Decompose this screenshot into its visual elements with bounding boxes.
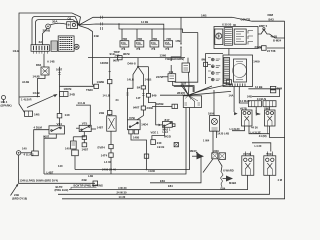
relay V75	[79, 125, 91, 131]
svg-text:14D4: 14D4	[141, 122, 148, 126]
svg-text:V34: V34	[57, 122, 63, 126]
switch row1 B (V60)	[265, 110, 276, 126]
svg-text:24: 24	[116, 98, 119, 102]
svg-text:B-M24: B-M24	[273, 38, 282, 42]
wire bottom-left 14LB-R	[19, 96, 40, 99]
inline connector 24B	[108, 111, 112, 115]
wire fuse drops from rail	[122, 29, 152, 41]
wire 14B down	[175, 33, 198, 83]
svg-text:4 LLA 2: 4 LLA 2	[24, 152, 34, 156]
label bracket boxtip	[71, 187, 97, 189]
svg-text:14T4: 14T4	[101, 153, 108, 157]
wire trunk 1007	[59, 67, 61, 114]
connector on DIM loop	[262, 46, 267, 51]
svg-text:74B: 74B	[138, 38, 143, 41]
svg-text:A14B: A14B	[22, 80, 29, 84]
svg-text:1007B: 1007B	[64, 87, 72, 91]
wire fan line L3 down	[79, 26, 93, 58]
wire fan line L2	[79, 24, 164, 41]
connector with X	[174, 143, 178, 147]
svg-text:E84: E84	[160, 179, 165, 183]
svg-text:24D: 24D	[70, 93, 76, 97]
wire x148 drop	[148, 67, 150, 94]
svg-text:D4H-8: D4H-8	[128, 62, 137, 66]
svg-text:1480: 1480	[133, 135, 140, 139]
svg-text:74B(BLK/GRN): 74B(BLK/GRN)	[165, 57, 184, 61]
wire trunk H at y57.6	[88, 57, 185, 59]
diode module 74B b	[182, 63, 190, 72]
svg-text:P 1: P 1	[137, 47, 141, 51]
wire from 74B module down	[187, 72, 190, 95]
component 1904 lamp unit	[213, 90, 215, 116]
svg-text:30AB: 30AB	[43, 28, 52, 32]
svg-text:14B: 14B	[201, 14, 207, 18]
splice ticks trunks	[109, 72, 145, 96]
svg-text:14 BLN: 14 BLN	[257, 97, 266, 101]
switch V34	[49, 126, 65, 134]
wire branch to fuse rail	[119, 24, 198, 33]
connector 140B right	[263, 101, 276, 107]
svg-text:1M47: 1M47	[190, 149, 197, 153]
svg-text:14B7: 14B7	[82, 148, 89, 152]
connector 24T0	[172, 104, 178, 108]
svg-text:4 W 30: 4 W 30	[118, 186, 127, 190]
svg-text:14B: 14B	[34, 113, 40, 117]
svg-text:B4: B4	[137, 85, 141, 89]
svg-text:L4 30: L4 30	[104, 160, 112, 164]
diode module 74B a	[168, 74, 176, 82]
switch 847	[162, 122, 172, 128]
inline connector 14MB	[108, 80, 112, 84]
svg-text:15A: 15A	[136, 41, 141, 45]
svg-text:15A: 15A	[121, 41, 126, 45]
svg-text:DIM: DIM	[277, 87, 283, 91]
svg-text:967B: 967B	[123, 52, 130, 56]
component small above	[71, 141, 77, 149]
svg-text:24 T38: 24 T38	[267, 49, 276, 53]
wire trunk x109.7 down	[109, 58, 111, 80]
ground lug circle	[16, 151, 20, 155]
svg-text:A 14B: A 14B	[47, 60, 55, 64]
svg-text:8M: 8M	[202, 58, 207, 62]
wire drops from assembly	[233, 87, 235, 113]
wire 247B stub	[162, 76, 168, 78]
wiring under row1	[232, 126, 245, 131]
connector 14B7	[82, 143, 87, 147]
connector right of 847	[172, 124, 175, 127]
feed arrow into 847	[159, 124, 162, 127]
svg-text:140: 140	[58, 164, 63, 168]
svg-text:COVER: COVER	[241, 17, 251, 21]
svg-text:(SPARK): (SPARK)	[1, 103, 12, 107]
connector at end	[93, 181, 98, 186]
svg-text:247B: 247B	[156, 75, 163, 79]
wire E84 run	[150, 156, 201, 183]
svg-text:V60: V60	[264, 106, 269, 110]
wire from left into junction	[160, 94, 188, 96]
svg-text:1M4B: 1M4B	[156, 102, 163, 106]
connector BAB 2-pin	[25, 111, 33, 116]
branch to TN40	[60, 85, 95, 87]
svg-text:BMT 5: BMT 5	[259, 24, 268, 28]
inline connector on block edge	[204, 62, 208, 66]
inline connector 140	[57, 114, 62, 118]
fuse row: fuse 1	[120, 41, 129, 47]
svg-text:O2: O2	[68, 17, 72, 21]
svg-text:(BRD DY18): (BRD DY18)	[12, 196, 27, 200]
connector 140B left	[248, 101, 261, 107]
svg-text:L4B7: L4B7	[47, 170, 54, 174]
svg-text:15A: 15A	[165, 41, 170, 45]
svg-text:1309: 1309	[213, 149, 220, 153]
inline connector 849	[146, 94, 150, 98]
wire 44M corner into V004	[252, 143, 271, 152]
svg-text:B43: B43	[269, 18, 275, 22]
contact sub-box	[234, 29, 246, 44]
svg-text:24B: 24B	[115, 53, 120, 57]
pin strip hatched	[224, 28, 232, 46]
switch V7B pins	[129, 130, 133, 134]
wire fuse stubs	[124, 47, 168, 50]
svg-text:44 36: 44 36	[251, 125, 258, 129]
svg-text:L4 30: L4 30	[255, 144, 262, 148]
svg-text:24MB: 24MB	[255, 45, 262, 49]
svg-text:BOXTIP (P4B) QWTING: BOXTIP (P4B) QWTING	[74, 184, 104, 188]
svg-text:9678: 9678	[113, 59, 119, 63]
svg-text:14UB: 14UB	[33, 75, 40, 79]
wire from 14.8 run	[181, 84, 188, 95]
svg-text:847: 847	[165, 118, 170, 122]
svg-text:L94 B: L94 B	[157, 145, 164, 149]
svg-text:4 E30: 4 E30	[148, 169, 156, 173]
svg-text:946T: 946T	[133, 106, 140, 110]
ignition switch assembly outer box	[214, 27, 258, 49]
component DB4 left column	[41, 67, 49, 75]
wire ground drop	[19, 155, 95, 183]
wire H at junction	[138, 66, 149, 68]
svg-text:849: 849	[152, 94, 157, 98]
wire x75 from connector 140b	[74, 156, 76, 170]
svg-text:131 4: 131 4	[1, 100, 8, 104]
ground terminal block	[32, 151, 39, 156]
svg-text:14T: 14T	[136, 96, 141, 100]
wire 24T0 branch	[152, 105, 172, 107]
svg-text:1487: 1487	[97, 125, 104, 129]
svg-text:V0735: V0735	[243, 152, 252, 156]
svg-text:P 1: P 1	[122, 47, 126, 51]
svg-text:14J0 L4B: 14J0 L4B	[217, 132, 229, 136]
knife switch arc top right	[258, 30, 285, 38]
wire 17B vertical	[180, 17, 182, 44]
fuse/relay box: striped module	[51, 41, 57, 51]
wire V34 bottom drop	[44, 134, 56, 174]
svg-text:140: 140	[22, 147, 27, 151]
svg-text:P 1: P 1	[166, 47, 170, 51]
svg-text:13060: 13060	[100, 61, 109, 65]
ignition position table box	[223, 55, 253, 87]
svg-text:284(F): 284(F)	[177, 91, 185, 95]
svg-text:VGE 1: VGE 1	[151, 131, 159, 135]
switch row1 A (V07B)	[242, 110, 253, 126]
pointer triangle lower right cluster	[226, 176, 233, 182]
feed arrows row1	[234, 112, 238, 115]
svg-text:E84: E84	[168, 184, 173, 188]
motor symbol M	[74, 44, 79, 49]
connector column block	[206, 54, 223, 85]
distribution box	[183, 96, 201, 108]
svg-text:EVR4: EVR4	[98, 146, 106, 150]
wire fan line L1 to far right	[79, 17, 285, 25]
wire to connector BAB	[19, 97, 25, 113]
pointer arrow to 24D connector	[27, 95, 56, 108]
battery B+ terminal	[46, 24, 51, 29]
svg-text:V004: V004	[266, 152, 273, 156]
svg-text:M4B4: M4B4	[229, 181, 237, 185]
svg-text:E84: E84	[221, 187, 226, 191]
junction node D4H-8	[137, 66, 139, 68]
squiggle wire	[221, 172, 224, 187]
svg-text:24B: 24B	[94, 34, 99, 38]
svg-text:24B: 24B	[99, 111, 104, 115]
fuse 2	[135, 41, 144, 47]
svg-text:4L0B: 4L0B	[271, 34, 278, 38]
svg-text:74B: 74B	[153, 38, 158, 41]
svg-text:17B: 17B	[175, 39, 180, 43]
relay V75 pins	[83, 132, 85, 136]
svg-text:74B: 74B	[123, 38, 128, 41]
wire 14LB feed to relay V75	[76, 105, 90, 125]
key cylinder sub-box	[215, 29, 223, 45]
svg-text:X 30 50: X 30 50	[222, 23, 232, 27]
wire TN40 branch	[93, 58, 95, 87]
svg-text:V7B: V7B	[129, 116, 136, 120]
pointer triangle left	[197, 153, 205, 159]
wire 847 bottom	[152, 127, 165, 139]
splice ticks on fan lines	[101, 16, 103, 30]
svg-text:14LB: 14LB	[145, 78, 152, 82]
stacked connector DIM	[270, 86, 275, 89]
connector small left of table	[226, 80, 231, 85]
wire DIM loop bottom	[267, 47, 285, 49]
svg-text:4 DLM: 4 DLM	[34, 125, 43, 129]
svg-text:1 4LB-R: 1 4LB-R	[21, 97, 32, 101]
pointer arrow bottom-left	[11, 185, 18, 196]
svg-text:4 M: 4 M	[278, 178, 283, 182]
connector 140b	[72, 150, 79, 156]
svg-text:24B: 24B	[82, 178, 87, 182]
svg-text:240: 240	[157, 141, 162, 145]
wire 14.8 double run to junction	[173, 81, 194, 92]
wire inner loop 1	[32, 17, 79, 45]
wire assembly link	[228, 49, 230, 56]
svg-text:14 2B: 14 2B	[141, 20, 148, 24]
svg-text:1360: 1360	[160, 54, 167, 58]
svg-text:14A: 14A	[229, 94, 234, 98]
wire 1904 drops	[212, 131, 214, 153]
svg-text:44 (M): 44 (M)	[259, 134, 267, 138]
wire long bus y169.5	[75, 108, 190, 170]
switch row2 A (V0735)	[242, 156, 254, 176]
svg-text:30: 30	[233, 23, 236, 27]
svg-text:TN40: TN40	[86, 88, 93, 92]
svg-text:(PRG ELN): (PRG ELN)	[55, 188, 69, 192]
svg-text:15A: 15A	[151, 41, 156, 45]
svg-text:74B: 74B	[166, 38, 171, 41]
svg-text:14LB: 14LB	[127, 78, 134, 82]
svg-text:140: 140	[65, 147, 70, 151]
wire 74B label run	[170, 65, 172, 74]
svg-text:L4 3L3E: L4 3L3E	[251, 130, 262, 134]
svg-text:24B: 24B	[14, 193, 19, 197]
svg-text:1007: 1007	[56, 68, 63, 72]
svg-text:24B: 24B	[247, 94, 252, 98]
svg-text:14 LB: 14 LB	[78, 101, 86, 105]
svg-text:14.8: 14.8	[181, 82, 187, 86]
wire trunk 14LB right	[138, 67, 143, 86]
svg-text:14LB: 14LB	[13, 49, 20, 53]
left margin terminal icon	[2, 96, 6, 100]
connector box with key symbol	[67, 22, 78, 29]
wire right border loop	[62, 21, 285, 199]
svg-text:L4B: L4B	[88, 174, 93, 178]
svg-text:14MB: 14MB	[97, 80, 104, 84]
inline connector 946T	[141, 106, 145, 110]
switch row2 B (V004)	[264, 156, 276, 176]
svg-text:P 1: P 1	[152, 47, 156, 51]
wire long bus y174	[44, 108, 186, 175]
switch V7B	[127, 120, 140, 130]
svg-text:V07B: V07B	[240, 106, 247, 110]
wire 14Bk loop right	[248, 89, 279, 97]
flasher module center	[107, 116, 116, 131]
inline connector 919	[118, 56, 123, 60]
wire trunk 14LB left	[128, 67, 139, 120]
svg-text:1 W4: 1 W4	[203, 139, 210, 143]
wire from connector strip down-left	[43, 54, 45, 67]
svg-text:V75: V75	[82, 122, 88, 126]
svg-text:WGD: WGD	[164, 134, 171, 138]
inline connector 240	[151, 140, 156, 145]
wire inner loop 2	[36, 20, 80, 45]
junction dots 1M47	[196, 152, 198, 154]
wire diagonals from cluster	[203, 159, 213, 173]
svg-text:DIM: DIM	[268, 13, 274, 17]
svg-text:14 Bk: 14 Bk	[255, 85, 263, 89]
svg-text:14UB: 14UB	[33, 91, 40, 95]
fuse 3	[150, 41, 159, 47]
wire V75 left stub	[76, 127, 79, 129]
wire row2 B bottom run	[58, 175, 270, 194]
fuse/relay box: fuse grid	[58, 36, 74, 51]
svg-text:L4 3L30: L4 3L30	[230, 127, 241, 131]
connector 24D 2-pin	[60, 92, 69, 97]
bracket contacts	[248, 31, 253, 45]
svg-text:14 RHA: 14 RHA	[240, 99, 250, 103]
wire battery to ignition feed box	[50, 23, 67, 25]
svg-text:X WARD: X WARD	[223, 169, 234, 173]
assembly lower pin row	[230, 84, 245, 87]
cluster connectors bottom-middle	[212, 153, 218, 159]
svg-text:1409: 1409	[253, 59, 260, 63]
inline connector B4	[141, 86, 145, 89]
wire battery to fusebox	[43, 28, 48, 44]
fuse 4	[164, 41, 173, 47]
svg-text:1346 (LPAD) 26/MA (BRD DY4): 1346 (LPAD) 26/MA (BRD DY4)	[20, 179, 59, 183]
inline connector on x146.5	[144, 154, 148, 158]
star junction node	[187, 94, 189, 96]
svg-text:9007: 9007	[43, 135, 50, 139]
svg-text:D84: D84	[36, 63, 42, 67]
svg-text:149: 149	[169, 70, 174, 74]
svg-text:1904: 1904	[208, 112, 215, 116]
svg-text:TRIP: TRIP	[114, 50, 120, 54]
wire row2 A bottom run	[69, 175, 248, 189]
inline connector 14T4	[109, 153, 113, 157]
wire DB4 down jog	[38, 75, 46, 87]
fuse/relay box: connector strip	[31, 45, 49, 52]
wire V75 right stub	[91, 128, 96, 130]
svg-text:14 LB: 14 LB	[103, 94, 110, 98]
wire outer top-left loop	[19, 13, 81, 97]
svg-text:14 30: 14 30	[119, 195, 126, 199]
wire from upper right diag	[188, 86, 212, 95]
svg-text:240B: 240B	[147, 106, 153, 110]
wire V34 left to ground run	[34, 130, 49, 151]
inline connector EVR4	[109, 145, 113, 149]
svg-text:24 W 30: 24 W 30	[117, 191, 128, 195]
svg-text:2406 24 40: 2406 24 40	[102, 168, 116, 172]
svg-text:30A: 30A	[52, 20, 58, 24]
wire from right column	[188, 84, 231, 95]
svg-text:140: 140	[65, 113, 70, 117]
